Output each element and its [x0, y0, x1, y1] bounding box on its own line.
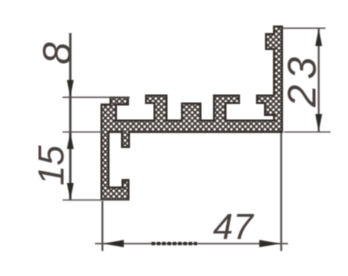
dimension 8/15: vertical dimension line	[69, 33, 71, 201]
arrow up at y=28 (inside)	[315, 29, 322, 47]
arrow down at y=132 (inside)	[315, 114, 322, 132]
svg-text:23: 23	[281, 52, 325, 109]
arrow down at y=97 (outside, above)	[67, 80, 74, 97]
dimension 47: extension line left vertical	[101, 201, 103, 251]
dimension 8/15: extension line middle (y=132)	[63, 131, 104, 133]
svg-text:15: 15	[31, 144, 72, 185]
arrow down at y=200 (above)	[67, 183, 74, 200]
dimension 8: extension line top (y=97)	[63, 96, 130, 98]
arrow up at y=132 (below)	[67, 132, 74, 149]
svg-text:47: 47	[213, 206, 255, 247]
dimension 23: vertical dimension line	[318, 28, 320, 132]
svg-text:8: 8	[36, 42, 80, 65]
dashed thick overlay segment on 47 line	[152, 242, 198, 245]
arrow left at x=102.4 (inside)	[103, 240, 124, 247]
dimension 23: extension line top (y=28)	[283, 27, 326, 29]
dimension 23: extension line bottom (y=132)	[284, 131, 331, 133]
dimension 15: extension line bottom (y=200)	[63, 199, 130, 201]
dimension 47: horizontal dimension line	[95, 243, 288, 245]
arrow right at x=281.2 (inside)	[259, 240, 280, 247]
dimension 47: extension line right vertical	[280, 133, 282, 251]
profile cross-section outline + hatch	[102, 27, 283, 200]
